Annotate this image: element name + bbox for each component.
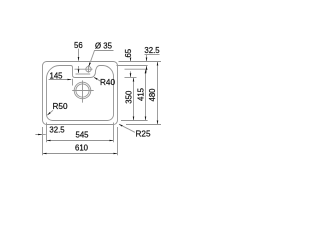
- svg-text:R25: R25: [135, 130, 150, 139]
- svg-text:610: 610: [75, 144, 89, 153]
- svg-text:545: 545: [75, 131, 89, 140]
- svg-text:56: 56: [74, 41, 83, 50]
- svg-text:R40: R40: [100, 78, 115, 87]
- svg-text:65: 65: [124, 48, 133, 57]
- svg-text:350: 350: [125, 90, 134, 104]
- svg-text:R50: R50: [52, 102, 67, 111]
- svg-text:Ø 35: Ø 35: [95, 42, 113, 51]
- svg-text:415: 415: [137, 87, 146, 101]
- svg-text:145: 145: [49, 71, 63, 80]
- svg-text:32.5: 32.5: [144, 46, 160, 55]
- svg-text:480: 480: [148, 88, 157, 102]
- svg-text:32.5: 32.5: [49, 125, 65, 134]
